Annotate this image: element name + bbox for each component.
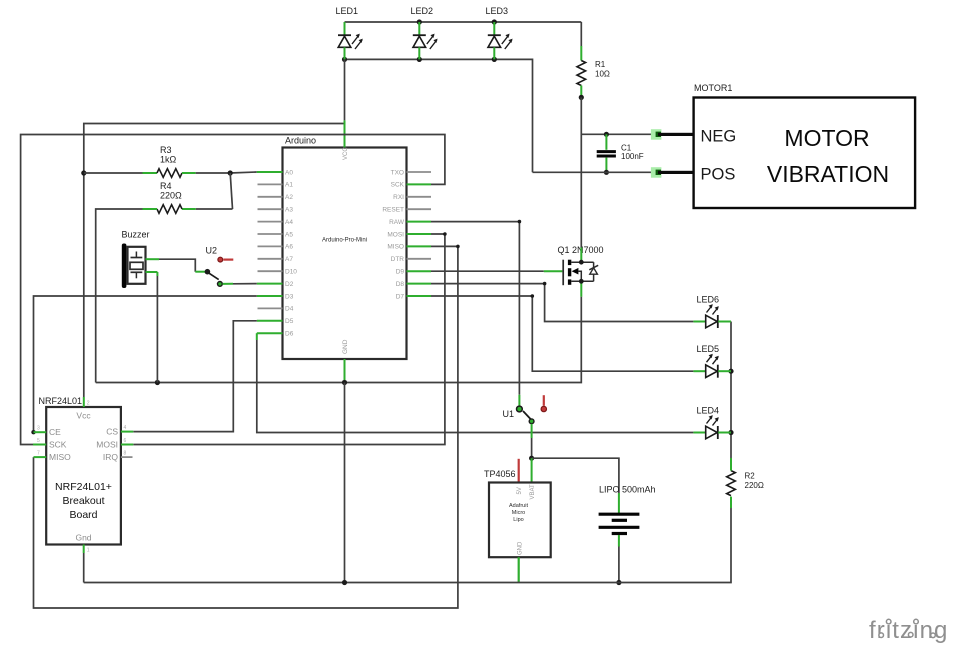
svg-text:D10: D10 — [285, 269, 297, 276]
svg-text:6: 6 — [124, 438, 127, 444]
wire arduino GND down to bottom rail — [344, 383, 346, 583]
svg-text:R1: R1 — [595, 60, 606, 69]
svg-text:LED1: LED1 — [336, 6, 359, 16]
pin A5 — [258, 231, 294, 238]
svg-text:10Ω: 10Ω — [595, 70, 610, 79]
svg-text:MOSI: MOSI — [96, 440, 118, 450]
label Adafruit Micro Lipo — [509, 503, 528, 523]
LED LED6 — [693, 304, 731, 328]
node D8 corner — [543, 282, 547, 286]
svg-text:A2: A2 — [285, 194, 293, 201]
pin MISO — [387, 244, 431, 251]
label MOTOR VIBRATION — [767, 125, 889, 187]
node R3 left junction — [81, 170, 86, 175]
node LED5 rail junction — [728, 369, 733, 374]
wire D7 to LED5 — [431, 296, 693, 371]
svg-text:NRF24L01+: NRF24L01+ — [55, 481, 112, 493]
label C1 value 100nF — [621, 144, 644, 162]
wire MISO down to bottom rail — [34, 246, 458, 608]
pin RXI — [393, 194, 431, 201]
pin D4 — [258, 306, 294, 313]
wire top rail LED anodes to R1 — [345, 21, 582, 23]
svg-text:VCC: VCC — [343, 147, 349, 160]
LED LED2 — [413, 22, 438, 59]
wire Q1 drain vertical — [580, 97, 582, 247]
pin VCC rotated — [343, 120, 349, 160]
pin NRF MOSI — [96, 438, 133, 450]
pin D8 — [396, 281, 431, 288]
motor MOTOR1 box — [694, 98, 916, 209]
label LED1 — [336, 6, 359, 16]
wire POS row — [533, 171, 652, 173]
buzzer — [122, 244, 146, 289]
label U2 — [206, 246, 218, 256]
label U1 — [503, 409, 515, 419]
svg-text:Breakout: Breakout — [62, 495, 104, 507]
node RAW corner — [518, 220, 522, 224]
label R3 value 1kohm — [160, 145, 177, 165]
resistor R4 — [157, 205, 182, 214]
wire junction to TP4056 VBAT — [531, 458, 533, 482]
pin GND rotated — [342, 339, 349, 382]
label LED4 — [697, 406, 720, 416]
svg-text:CE: CE — [49, 427, 61, 437]
svg-text:D8: D8 — [396, 281, 405, 288]
svg-text:A7: A7 — [285, 256, 293, 263]
resistor R2 — [727, 433, 736, 509]
IC NRF24L01 box — [46, 407, 121, 545]
wire RAW down to U1 — [431, 222, 519, 406]
label R4 value 220ohm — [160, 181, 182, 201]
svg-text:DTR: DTR — [391, 256, 405, 263]
wire TP4056 GND to rail — [518, 557, 520, 582]
svg-text:7: 7 — [37, 451, 40, 457]
label LED2 — [411, 6, 434, 16]
pin NRF SCK — [33, 438, 67, 450]
wire R3 right lead to A0 — [182, 172, 257, 173]
pin RAW — [389, 219, 431, 226]
pin D10 — [258, 269, 298, 276]
LED LED3 — [488, 22, 513, 59]
svg-text:U1: U1 — [503, 409, 515, 419]
pin A7 — [258, 256, 294, 263]
svg-text:R3: R3 — [160, 145, 172, 155]
svg-text:SCK: SCK — [49, 440, 67, 450]
svg-text:220Ω: 220Ω — [160, 191, 182, 201]
pin D6 — [257, 331, 294, 338]
svg-text:LED6: LED6 — [697, 295, 720, 305]
pin SCK — [391, 182, 431, 189]
resistor R3 — [157, 169, 182, 178]
pin TXO — [391, 169, 431, 176]
svg-text:TXO: TXO — [391, 169, 404, 176]
pad motor NEG — [651, 129, 694, 140]
label Arduino — [285, 136, 316, 146]
node LED2 bottom junction — [417, 57, 422, 62]
svg-text:MISO: MISO — [49, 452, 71, 462]
svg-text:VIBRATION: VIBRATION — [767, 161, 889, 187]
node C1 bottom junction — [604, 170, 609, 175]
pin label GND rotated — [518, 541, 524, 555]
pad motor POS — [651, 167, 694, 178]
label Buzzer — [122, 230, 150, 240]
pin NRF CS — [106, 425, 133, 437]
wire D5 to NRF CS — [133, 321, 256, 432]
wire VCC rail top left — [344, 59, 346, 120]
node arduino GND junction — [342, 380, 347, 385]
svg-text:Arduino-Pro-Mini: Arduino-Pro-Mini — [322, 238, 367, 244]
wire U2 to D2 — [223, 283, 257, 285]
wire buzzer pin2 down to ground bus — [146, 272, 158, 383]
pin label NEG — [701, 128, 737, 146]
label Arduino-Pro-Mini — [322, 238, 367, 244]
pin NRF Gnd — [75, 533, 91, 583]
wire R4 left lead to GND drop — [96, 209, 157, 383]
svg-text:LIPO 500mAh: LIPO 500mAh — [599, 485, 656, 495]
pin label POS — [701, 166, 736, 184]
pin A6 — [258, 244, 294, 251]
svg-text:IRQ: IRQ — [103, 452, 119, 462]
wire SCK to NRF SCK long route — [21, 135, 445, 445]
svg-text:MOTOR: MOTOR — [784, 125, 869, 151]
LED LED1 — [338, 22, 363, 59]
pin A3 — [258, 207, 294, 214]
pin D2 — [257, 281, 294, 288]
wire D8 to LED6 — [431, 284, 693, 322]
wire buzzer pin1 to U2 — [146, 259, 206, 272]
svg-text:8: 8 — [124, 451, 127, 457]
node R1 bottom — [579, 95, 584, 100]
pin NRF MISO — [34, 451, 72, 463]
node battery junction — [529, 456, 534, 461]
pin D7 — [396, 293, 431, 300]
node LED1 bottom junction — [342, 57, 347, 62]
wire R4 right lead — [182, 208, 233, 210]
node C1 top junction — [604, 132, 609, 137]
svg-text:D9: D9 — [396, 269, 405, 276]
svg-text:D7: D7 — [396, 293, 405, 300]
svg-text:1: 1 — [87, 548, 90, 554]
svg-text:NRF24L01: NRF24L01 — [39, 396, 83, 406]
node LED4 rail junction — [728, 430, 733, 435]
label Q1 2N7000 — [558, 245, 604, 255]
svg-text:4: 4 — [124, 425, 127, 431]
svg-text:U2: U2 — [206, 246, 218, 256]
svg-text:LED3: LED3 — [486, 6, 509, 16]
node D7 corner — [531, 294, 535, 298]
svg-text:MOSI: MOSI — [387, 231, 404, 238]
wire U1 unused terminal red — [541, 395, 546, 411]
wire NEG row — [581, 133, 651, 135]
svg-text:MISO: MISO — [387, 244, 404, 251]
svg-text:fritzing: fritzing — [869, 617, 949, 644]
svg-text:Board: Board — [69, 509, 97, 521]
node LED3 bottom junction — [492, 57, 497, 62]
wire Q1 source to ground bus — [96, 297, 582, 383]
svg-text:MOTOR1: MOTOR1 — [694, 83, 732, 93]
svg-text:R4: R4 — [160, 181, 172, 191]
node LED2 top junction — [417, 19, 422, 24]
svg-text:GND: GND — [518, 541, 524, 555]
resistor R1 — [577, 61, 586, 86]
svg-text:A6: A6 — [285, 244, 293, 251]
switch U1 — [517, 406, 534, 424]
pin A1 — [258, 182, 294, 189]
svg-text:Adafruit: Adafruit — [509, 503, 528, 509]
svg-text:VBAT: VBAT — [530, 484, 536, 500]
label R2 value 220ohm — [745, 472, 764, 491]
switch U2 — [205, 257, 234, 286]
wire U1 output to battery junction — [531, 424, 533, 458]
wire bottom ground rail — [84, 508, 731, 583]
wire R1 bottom lead — [580, 86, 582, 98]
svg-text:D4: D4 — [285, 306, 294, 313]
node Q1 drain — [579, 260, 584, 265]
wire D9 to Q1 gate — [431, 270, 562, 272]
label TP4056 — [484, 469, 516, 479]
wire VCC branch to R3 and NRF Vcc — [84, 124, 345, 398]
svg-text:SCK: SCK — [391, 182, 405, 189]
svg-text:A0: A0 — [285, 169, 293, 176]
pin label VBAT rotated — [530, 484, 536, 500]
pin D9 — [396, 269, 431, 276]
label LED3 — [486, 6, 509, 16]
svg-text:220Ω: 220Ω — [745, 481, 764, 490]
pin A4 — [258, 219, 294, 226]
svg-text:LED2: LED2 — [411, 6, 434, 16]
svg-text:CS: CS — [106, 427, 118, 437]
node MISO corner — [456, 245, 460, 249]
svg-text:1kΩ: 1kΩ — [160, 155, 177, 165]
node arduino GND rail junction — [342, 580, 347, 585]
svg-text:LED5: LED5 — [697, 344, 720, 354]
svg-text:RAW: RAW — [389, 219, 405, 226]
label NRF24L01+ Breakout Board — [55, 481, 112, 521]
wire LED right rail — [730, 322, 732, 433]
svg-text:2: 2 — [87, 401, 90, 407]
svg-text:A3: A3 — [285, 207, 293, 214]
label LED5 — [697, 344, 720, 354]
svg-text:D3: D3 — [285, 293, 294, 300]
capacitor C1 — [597, 134, 616, 172]
svg-text:A4: A4 — [285, 219, 293, 226]
pin A2 — [258, 194, 294, 201]
pin D5 — [257, 318, 294, 325]
svg-text:RXI: RXI — [393, 194, 404, 201]
label MOTOR1 — [694, 83, 732, 93]
wire R1 top lead — [580, 22, 582, 61]
IC Arduino Pro Mini box — [283, 148, 407, 360]
node buzzer ground junction — [155, 380, 160, 385]
svg-text:A1: A1 — [285, 182, 293, 189]
node Q1 source — [579, 279, 584, 284]
label LED6 — [697, 295, 720, 305]
wire junction to battery top — [532, 458, 619, 493]
node CE end — [31, 430, 35, 434]
LED LED5 — [693, 354, 731, 378]
wire LED bottom rail to POS drop — [345, 59, 533, 172]
pin MOSI — [387, 231, 431, 238]
svg-text:RESET: RESET — [382, 207, 404, 214]
svg-text:Gnd: Gnd — [75, 533, 91, 543]
svg-text:A5: A5 — [285, 231, 293, 238]
wire R3 left lead — [84, 172, 157, 174]
svg-text:D2: D2 — [285, 281, 294, 288]
svg-text:D6: D6 — [285, 331, 294, 338]
wire Q1 source lead — [580, 281, 582, 297]
pin NRF IRQ — [103, 451, 133, 463]
label NRF24L01 — [39, 396, 83, 406]
wire MOSI down to NRF MOSI — [133, 234, 445, 445]
svg-text:5: 5 — [37, 438, 40, 444]
svg-text:LED4: LED4 — [697, 406, 720, 416]
svg-text:R2: R2 — [745, 472, 756, 481]
wire R4 right riser — [230, 173, 232, 209]
svg-text:Lipo: Lipo — [513, 517, 523, 523]
battery LIPO — [599, 493, 640, 583]
label R1 value 10ohm — [595, 60, 610, 79]
pin label 5V rotated — [517, 487, 523, 494]
node MOSI corner — [443, 232, 447, 236]
svg-text:100nF: 100nF — [621, 152, 644, 161]
svg-text:Buzzer: Buzzer — [122, 230, 150, 240]
node LED3 top junction — [492, 19, 497, 24]
node R3 R4 junction — [228, 170, 233, 175]
node battery ground — [616, 580, 621, 585]
pin DTR — [391, 256, 431, 263]
svg-text:Arduino: Arduino — [285, 136, 316, 146]
svg-text:D5: D5 — [285, 318, 294, 325]
svg-text:POS: POS — [701, 166, 736, 184]
pin D3 — [257, 293, 294, 300]
svg-text:NEG: NEG — [701, 128, 737, 146]
label LIPO 500mAh — [599, 485, 656, 495]
svg-text:5V: 5V — [517, 487, 523, 494]
pin NRF CE — [34, 426, 62, 438]
svg-text:Vcc: Vcc — [76, 411, 91, 421]
wire Q1 drain lead — [580, 248, 582, 263]
pin RESET — [382, 207, 431, 214]
transistor Q1 2N7000 — [563, 260, 598, 286]
svg-text:GND: GND — [342, 339, 349, 354]
IC TP4056 box — [489, 483, 551, 558]
svg-text:TP4056: TP4056 — [484, 469, 516, 479]
wire D6 to LED4 — [257, 333, 694, 432]
pin A0 — [257, 169, 294, 176]
wire D3 to NRF CE — [34, 296, 257, 432]
wire TP4056 5V unused red — [518, 459, 520, 483]
LED LED4 — [693, 415, 731, 439]
pin NRF Vcc — [76, 397, 91, 421]
svg-text:Micro: Micro — [512, 510, 525, 516]
svg-text:3: 3 — [37, 426, 40, 432]
label fritzing — [869, 617, 949, 644]
